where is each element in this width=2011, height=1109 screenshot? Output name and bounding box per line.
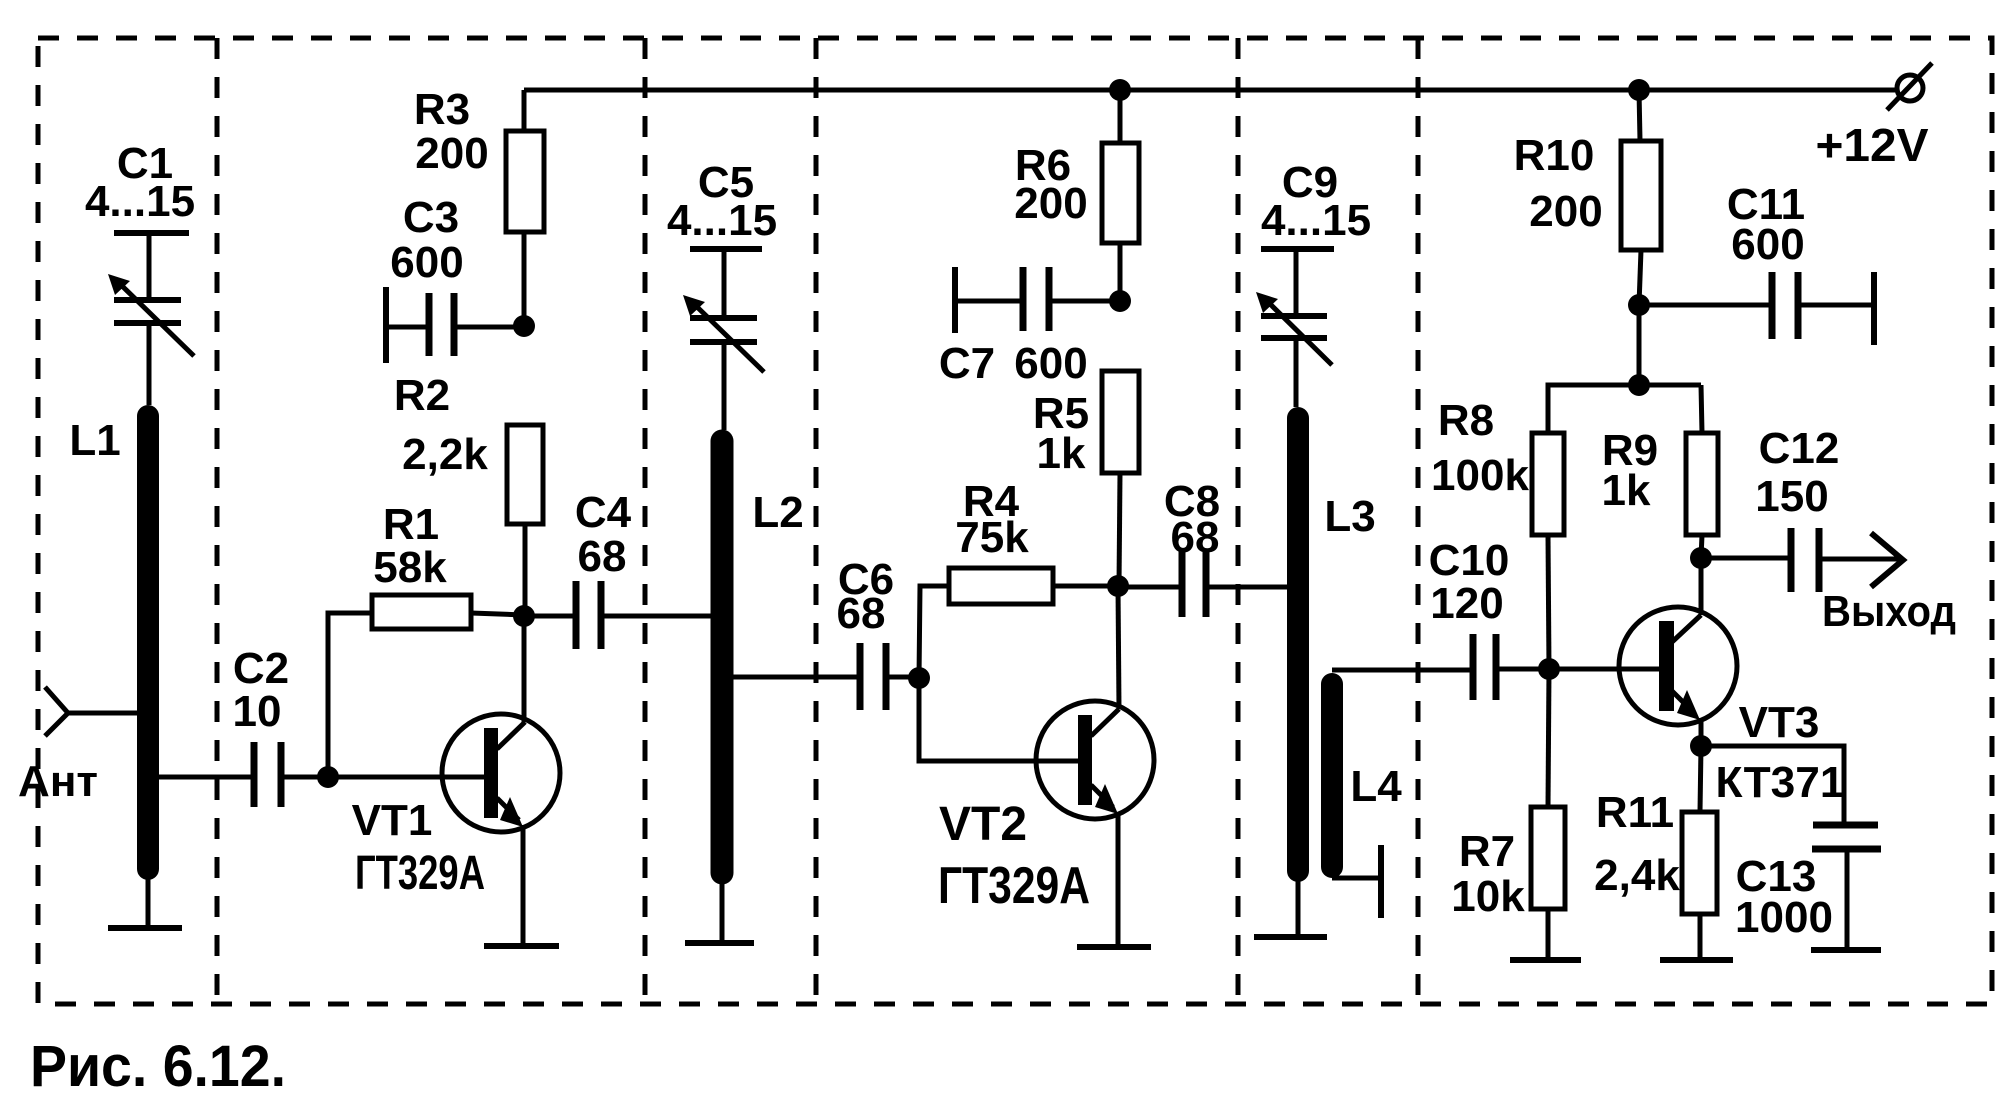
capacitor C10: [1473, 634, 1496, 700]
svg-text:200: 200: [1014, 179, 1087, 228]
svg-text:Рис. 6.12.: Рис. 6.12.: [30, 1034, 286, 1099]
capacitor C4: [576, 581, 601, 649]
svg-text:ГТ329А: ГТ329А: [938, 857, 1090, 915]
svg-text:2,4k: 2,4k: [1594, 851, 1680, 900]
wire C2 to VT1 base: [281, 775, 488, 780]
resistor R9 label: [1602, 426, 1659, 515]
ground terminal L1: [108, 925, 182, 931]
wire L1 to C2: [148, 775, 254, 780]
output arrow: [1871, 533, 1903, 587]
wire emitter node to R11: [1700, 746, 1701, 812]
capacitor C6 label: [837, 555, 895, 638]
svg-text:R11: R11: [1596, 788, 1674, 837]
VT3 label: [1716, 698, 1845, 807]
resistor R8: [1532, 433, 1564, 535]
capacitor C2: [254, 742, 281, 807]
shield divider 4: [1236, 38, 1241, 1004]
svg-text:4...15: 4...15: [1261, 196, 1371, 245]
capacitor C12 label: [1755, 424, 1839, 521]
svg-text:120: 120: [1430, 579, 1503, 628]
svg-text:C12: C12: [1759, 424, 1840, 473]
wire L4 bottom to terminal: [1332, 876, 1381, 881]
svg-text:4...15: 4...15: [85, 177, 195, 226]
wire antenna to L1: [68, 711, 148, 716]
svg-text:L1: L1: [69, 416, 120, 465]
VT1 label: [352, 796, 485, 900]
inductor L3: [1287, 418, 1309, 871]
node emitter VT3 junction: [1690, 735, 1712, 757]
wire R1 to collector node: [471, 613, 524, 615]
wire R6 to C7 node: [1118, 243, 1123, 301]
svg-text:58k: 58k: [373, 543, 447, 592]
transistor VT2: [1036, 586, 1154, 947]
inductor L1: [137, 416, 159, 869]
node rail/R6 junction: [1109, 79, 1131, 101]
svg-text:C2: C2: [233, 644, 289, 693]
svg-text:R3: R3: [414, 85, 470, 134]
resistor R7 label: [1451, 827, 1525, 921]
svg-text:2,2k: 2,2k: [402, 430, 488, 479]
L1 label: [69, 416, 120, 465]
svg-text:100k: 100k: [1431, 451, 1529, 500]
wire R9 top: [1701, 385, 1702, 433]
svg-text:R2: R2: [394, 371, 450, 420]
antenna symbol: [45, 687, 68, 736]
resistor R1: [372, 595, 471, 629]
+12V label: [1816, 119, 1929, 171]
svg-text:68: 68: [1171, 513, 1220, 562]
node C3/R3/R2 junction: [513, 315, 535, 337]
resistor R1 label: [373, 500, 447, 592]
svg-text:600: 600: [1014, 339, 1087, 388]
L3 label: [1324, 492, 1375, 541]
wire rail to R10: [1639, 90, 1640, 141]
node rail/R10 junction: [1628, 79, 1650, 101]
svg-text:10: 10: [233, 687, 282, 736]
capacitor C10 label: [1429, 536, 1510, 628]
wire C12 to output: [1819, 557, 1899, 562]
svg-text:1000: 1000: [1735, 893, 1833, 942]
ground terminal L2: [685, 940, 754, 946]
resistor R2: [507, 425, 543, 524]
resistor R11: [1682, 812, 1717, 914]
svg-text:R1: R1: [383, 500, 439, 549]
wire C10 to base node VT3: [1496, 667, 1549, 672]
node C6/R4/base VT2 junction: [908, 667, 930, 689]
svg-text:C7: C7: [939, 339, 995, 388]
svg-text:R8: R8: [1438, 396, 1494, 445]
resistor R11 label: [1594, 788, 1680, 900]
capacitor C1 label: [85, 139, 195, 226]
resistor R6 label: [1014, 141, 1087, 228]
svg-text:75k: 75k: [955, 513, 1029, 562]
shield divider 2: [643, 38, 648, 1004]
resistor R7: [1531, 807, 1565, 909]
svg-text:4...15: 4...15: [667, 196, 777, 245]
svg-text:C10: C10: [1429, 536, 1510, 585]
capacitor C8: [1182, 549, 1206, 617]
capacitor C5 (variable): [683, 249, 764, 430]
wire L2 bottom: [720, 878, 725, 943]
svg-text:600: 600: [390, 238, 463, 287]
wire C6 to junction: [886, 675, 919, 680]
node R4/R5/C8/collector VT2 junction: [1107, 575, 1129, 597]
capacitor C13 label: [1735, 852, 1833, 942]
svg-text:600: 600: [1731, 220, 1804, 269]
capacitor C5 label: [667, 158, 777, 245]
wire R8 top to node: [1548, 385, 1701, 433]
resistor R4 label: [955, 477, 1029, 562]
svg-text:L3: L3: [1324, 492, 1375, 541]
resistor R10 label: [1514, 131, 1603, 236]
caption Рис. 6.12.: [30, 1034, 286, 1099]
wire L1 bottom: [146, 875, 151, 928]
svg-text:L4: L4: [1350, 762, 1402, 811]
svg-text:VT3: VT3: [1739, 698, 1820, 747]
capacitor C11: [1639, 272, 1874, 345]
svg-text:VT2: VT2: [939, 798, 1027, 851]
node C10/R8/R7/base VT3 junction: [1538, 658, 1560, 680]
resistor R2 label: [394, 371, 488, 479]
wire node to C4: [524, 614, 576, 619]
transistor VT1: [442, 616, 560, 946]
capacitor C8 label: [1164, 477, 1220, 562]
wire junction up to R4: [919, 586, 949, 678]
svg-text:200: 200: [1529, 187, 1602, 236]
resistor R5: [1102, 371, 1139, 473]
shield divider 3: [814, 38, 819, 1004]
wire rail to R3: [522, 90, 527, 131]
capacitor C2 label: [233, 644, 290, 736]
svg-text:КТ371: КТ371: [1716, 758, 1845, 807]
ground terminal R11: [1660, 957, 1733, 963]
svg-text:1k: 1k: [1602, 466, 1651, 515]
capacitor C9 label: [1261, 158, 1371, 245]
output Выход label: [1822, 587, 1956, 636]
svg-text:68: 68: [578, 532, 627, 581]
wire emitter node to C13: [1701, 746, 1844, 825]
svg-text:1k: 1k: [1037, 429, 1086, 478]
ground terminal R7: [1510, 957, 1581, 963]
resistor R10: [1621, 141, 1661, 250]
resistor R9: [1686, 433, 1718, 535]
svg-text:Ант: Ант: [18, 757, 98, 806]
svg-text:L2: L2: [752, 488, 803, 537]
svg-text:C4: C4: [575, 488, 632, 537]
capacitor C7 label: [939, 339, 1088, 388]
terminal bar L4: [1378, 845, 1384, 918]
ground terminal L3: [1254, 934, 1327, 940]
wire junction down to VT2 base: [919, 678, 1082, 761]
svg-text:R10: R10: [1514, 131, 1595, 180]
capacitor C3 label: [390, 193, 463, 287]
capacitor C3: [386, 287, 524, 363]
node Ант label: [18, 757, 98, 806]
capacitor C12: [1791, 528, 1819, 592]
svg-text:R7: R7: [1459, 827, 1515, 876]
wire R7 bottom: [1546, 909, 1551, 960]
inductor L4: [1321, 684, 1343, 867]
svg-text:VT1: VT1: [352, 796, 433, 845]
capacitor C4 label: [575, 488, 632, 581]
shield divider 5: [1416, 38, 1421, 1004]
wire base node to VT3: [1549, 667, 1663, 672]
VT2 label: [938, 798, 1090, 915]
node C7/R6/R5 junction: [1109, 290, 1131, 312]
node R10/C11 junction: [1628, 294, 1650, 316]
wire R1 left branch: [328, 613, 372, 777]
node base VT1 junction: [317, 766, 339, 788]
wire R5 to collector node VT2: [1119, 473, 1120, 586]
L2 label: [752, 488, 803, 537]
wire node up to R10/C11 node: [1637, 305, 1642, 385]
node collector VT3 junction: [1690, 547, 1712, 569]
wire L4 top to C10: [1332, 668, 1473, 673]
transistor VT3: [1619, 558, 1737, 746]
wire base node to R7: [1548, 669, 1549, 807]
wire rail to R6: [1118, 90, 1123, 143]
capacitor C13: [1811, 825, 1881, 950]
svg-text:ГТ329А: ГТ329А: [355, 847, 485, 900]
node R8/R9 top junction: [1628, 374, 1650, 396]
wire C8 to L3: [1206, 585, 1298, 590]
wire L3 bottom: [1296, 876, 1301, 937]
wire R9 bottom to collector node: [1701, 535, 1702, 558]
shield divider 1: [215, 38, 220, 1004]
wire R11 bottom: [1698, 914, 1703, 960]
wire R10 to C11 node: [1639, 250, 1641, 305]
+12V power rail wire: [524, 88, 1899, 93]
capacitor C9 (variable): [1256, 249, 1334, 407]
wire R2 bottom to collector node: [523, 524, 528, 615]
wire C4 to L2: [601, 614, 722, 619]
node collector VT1 junction: [513, 605, 535, 627]
svg-text:+12V: +12V: [1816, 119, 1929, 171]
resistor R3 label: [414, 85, 489, 178]
resistor R8 label: [1431, 396, 1529, 500]
wire collector node to C12: [1701, 556, 1791, 561]
resistor R3: [506, 131, 544, 232]
capacitor C6: [860, 643, 886, 710]
svg-text:68: 68: [837, 589, 886, 638]
capacitor C11 label: [1727, 180, 1805, 269]
L4 label: [1350, 762, 1402, 811]
wire R4 to collector node VT2: [1053, 584, 1118, 589]
+12V terminal symbol: [1887, 63, 1932, 110]
resistor R6: [1102, 143, 1139, 243]
svg-text:C3: C3: [403, 193, 459, 242]
ground terminal VT2 emitter: [1077, 944, 1151, 950]
wire node to C8: [1118, 585, 1182, 590]
wire R8 bottom to base node: [1548, 535, 1549, 669]
capacitor C7: [955, 267, 1120, 333]
resistor R4: [949, 568, 1053, 604]
svg-text:Выход: Выход: [1822, 587, 1956, 636]
svg-text:150: 150: [1755, 472, 1828, 521]
svg-text:10k: 10k: [1451, 872, 1525, 921]
svg-text:200: 200: [415, 129, 488, 178]
ground terminal VT1 emitter: [484, 943, 559, 949]
wire L2 to C6: [722, 675, 860, 680]
wire R3 to C3 node: [522, 232, 527, 326]
inductor L2: [711, 441, 734, 873]
capacitor C1 (variable): [108, 233, 194, 405]
resistor R5 label: [1033, 389, 1089, 478]
